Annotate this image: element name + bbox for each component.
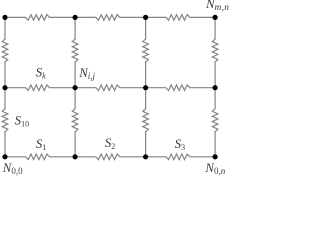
resistor col2 seg1 [72,17,78,87]
svg-text:Nm,n: Nm,n [205,0,229,13]
resistor S_k [5,85,75,91]
node N_0,0 [2,154,7,159]
node r3c2 [73,154,78,159]
resistor row-top seg3 [146,15,216,21]
node N_0,n [213,154,218,159]
svg-text:Ni,j: Ni,j [78,66,95,81]
resistor col4 seg2 [212,88,218,157]
resistor col3 seg1 [143,17,149,87]
node r2c4 [213,85,218,90]
resistor row-top seg1 [5,15,75,21]
node r3c3 [143,154,148,159]
resistor S_3 [146,154,216,160]
node N_m,n [213,15,218,20]
svg-text:S2: S2 [105,135,116,151]
resistor S_2 [75,154,146,160]
svg-text:N0,0: N0,0 [2,161,23,176]
svg-text:S10: S10 [15,113,30,129]
node r2c1 [2,85,7,90]
node r1c1 [2,15,7,20]
resistor col4 seg1 [212,17,218,87]
resistor row-mid seg3 [146,85,216,91]
resistor S_1 [5,154,75,160]
resistor S_10 [2,88,8,157]
node r2c3 [143,85,148,90]
node r1c2 [73,15,78,20]
resistor col1 seg1 [2,17,8,87]
resistor row-top seg2 [75,15,146,21]
resistor row-mid seg2 [75,85,146,91]
svg-text:S1: S1 [36,136,47,152]
svg-text:N0,n: N0,n [204,161,225,176]
svg-text:Sk: Sk [36,65,47,81]
resistor col3 seg2 [143,88,149,157]
node N_i,j [73,85,78,90]
resistor col2 seg2 [72,88,78,157]
node r1c3 [143,15,148,20]
svg-text:S3: S3 [175,136,186,152]
